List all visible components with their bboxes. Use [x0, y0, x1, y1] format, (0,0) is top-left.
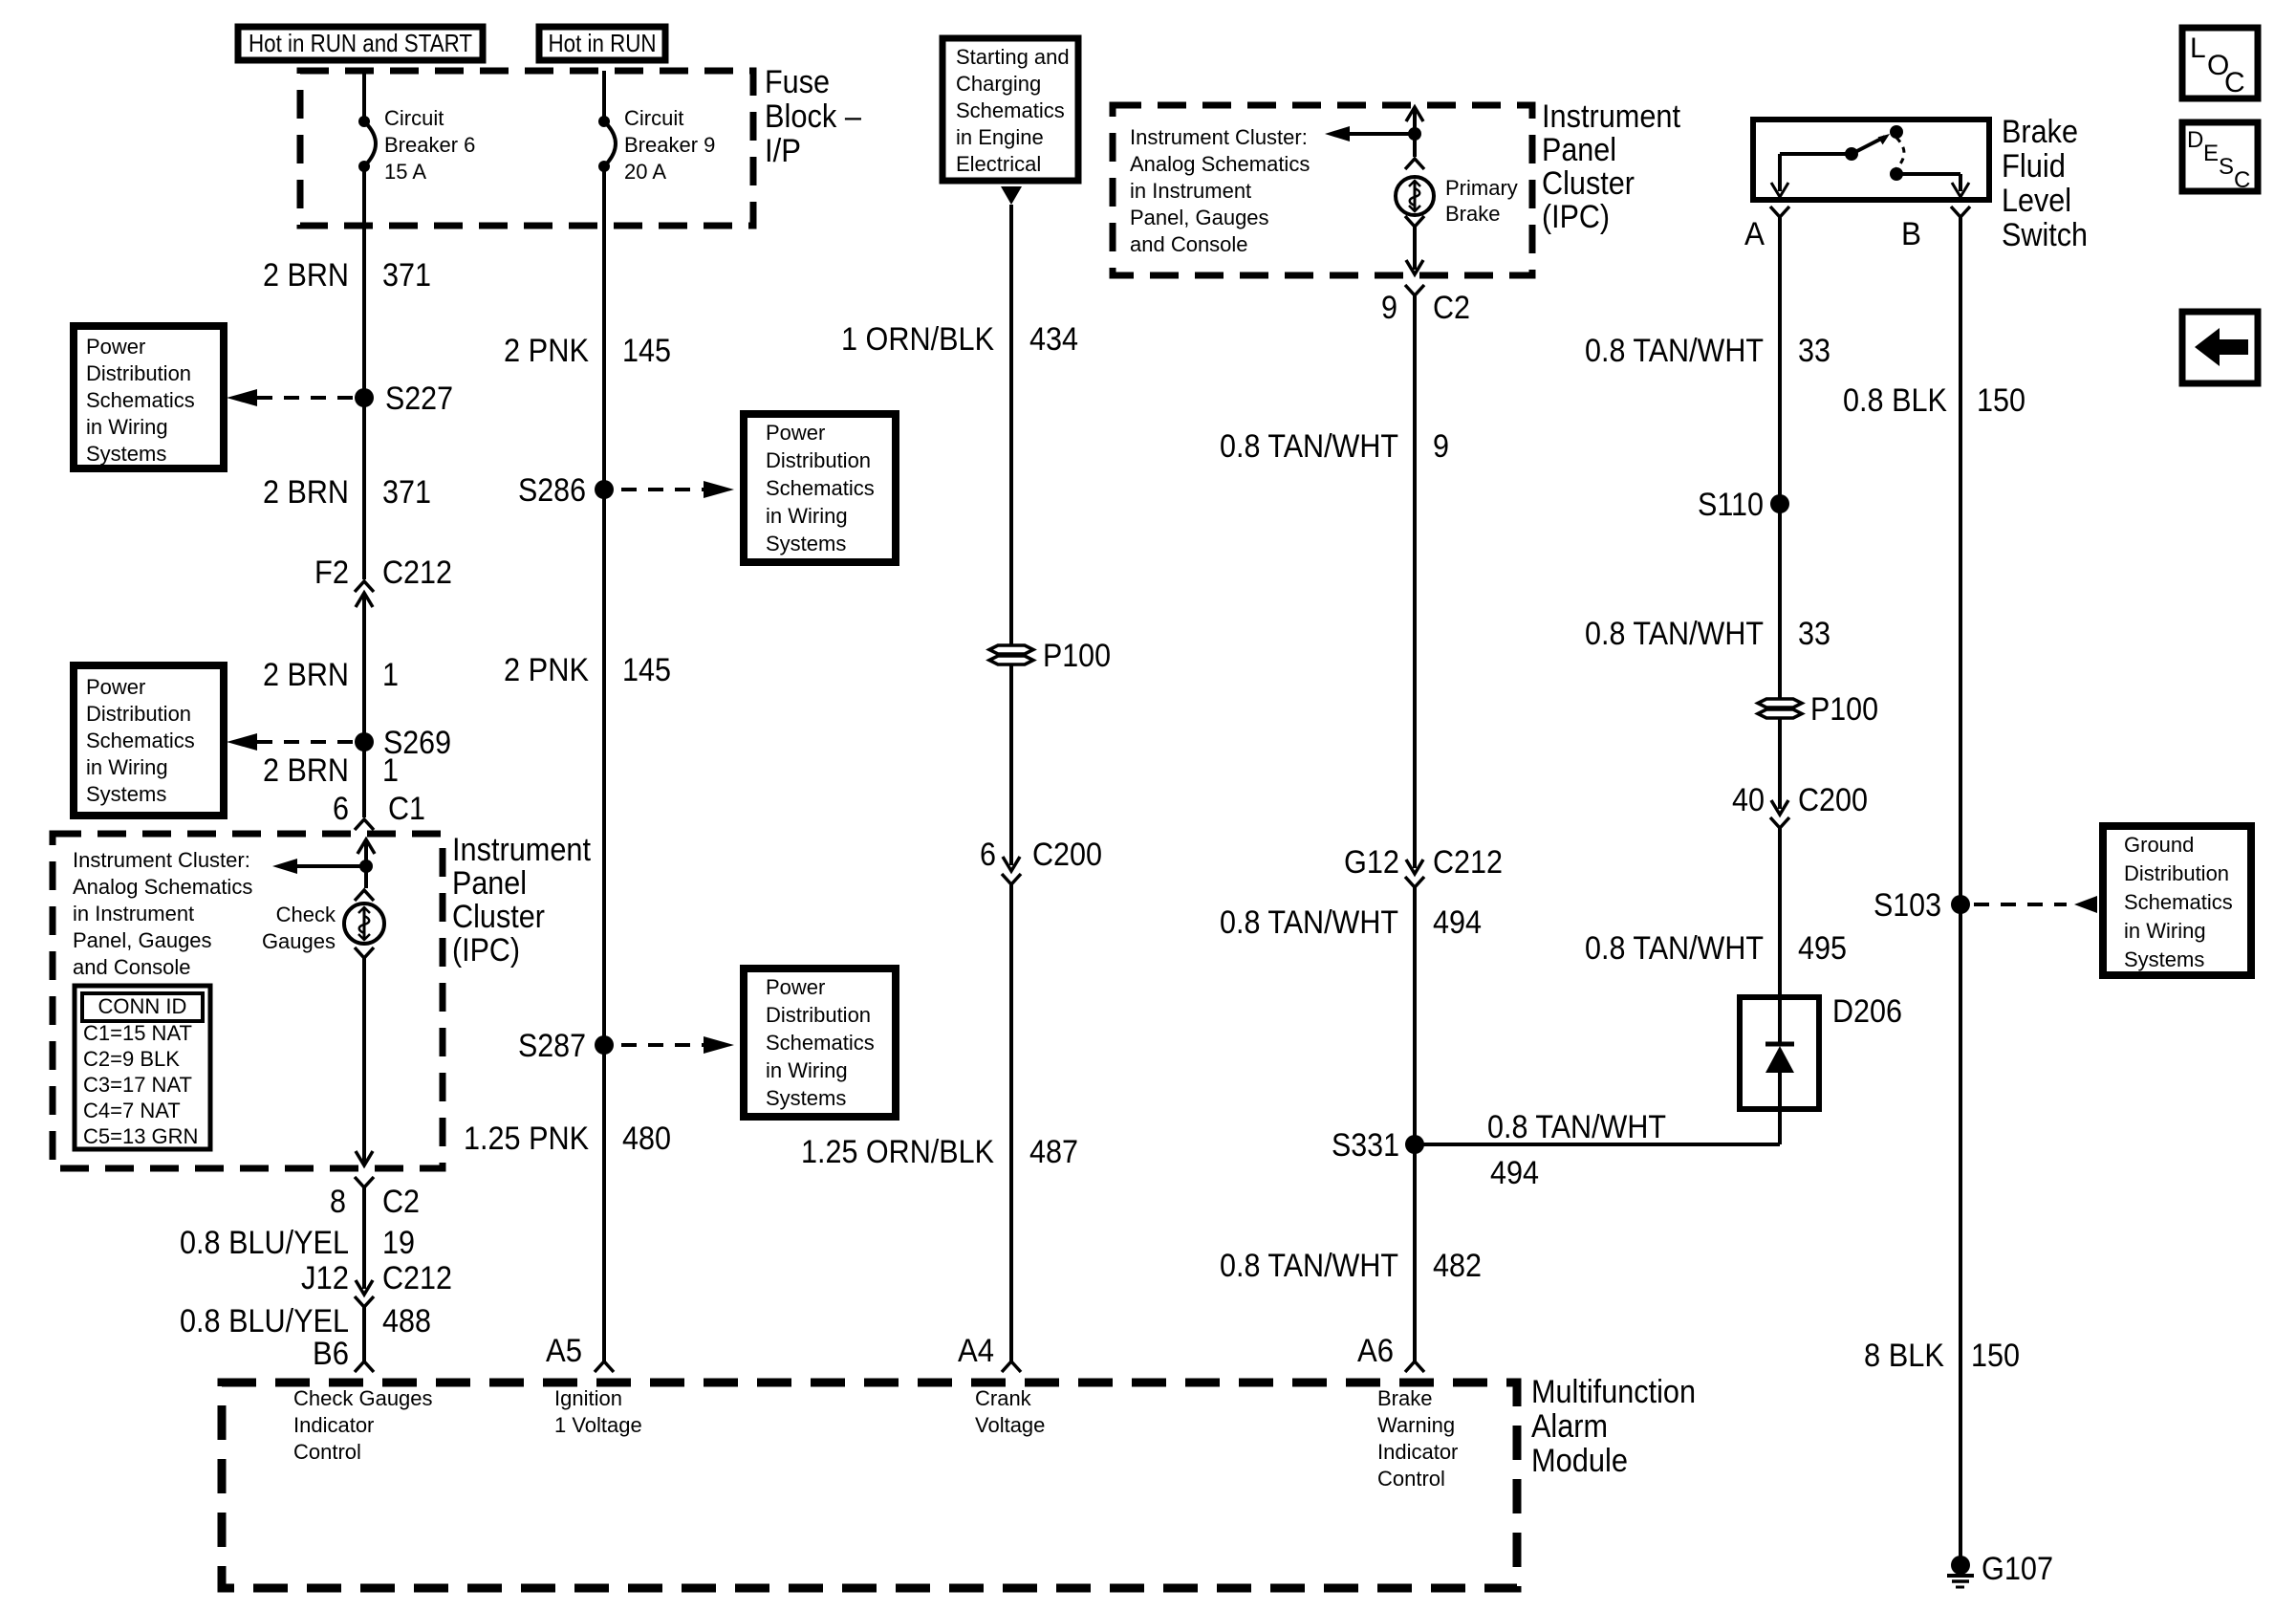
svg-text:494: 494	[1490, 1155, 1539, 1191]
svg-text:Schematics: Schematics	[86, 729, 195, 752]
svg-text:Cluster: Cluster	[452, 899, 545, 935]
svg-text:C2: C2	[1433, 290, 1470, 326]
svg-text:Distribution: Distribution	[766, 448, 871, 472]
svg-text:in Wiring: in Wiring	[766, 1058, 848, 1082]
svg-text:D206: D206	[1832, 993, 1902, 1030]
svg-text:Warning: Warning	[1377, 1413, 1455, 1437]
svg-text:Breaker 9: Breaker 9	[624, 133, 715, 157]
svg-text:6: 6	[980, 837, 996, 873]
svg-text:Panel: Panel	[1542, 132, 1616, 168]
svg-text:Control: Control	[1377, 1467, 1445, 1491]
svg-text:(IPC): (IPC)	[452, 932, 520, 969]
svg-text:in Wiring: in Wiring	[766, 504, 848, 528]
svg-text:150: 150	[1977, 382, 2025, 419]
svg-text:15 A: 15 A	[384, 160, 426, 184]
svg-text:in Wiring: in Wiring	[86, 415, 168, 439]
svg-text:Distribution: Distribution	[86, 702, 191, 726]
svg-text:B6: B6	[313, 1336, 349, 1372]
svg-text:1.25 ORN/BLK: 1.25 ORN/BLK	[801, 1134, 994, 1170]
svg-text:S110: S110	[1698, 487, 1764, 523]
svg-text:P100: P100	[1810, 691, 1878, 728]
svg-text:G107: G107	[1982, 1551, 2053, 1587]
svg-text:2 BRN: 2 BRN	[263, 257, 349, 294]
svg-text:0.8 BLU/YEL: 0.8 BLU/YEL	[180, 1303, 349, 1339]
svg-text:Power: Power	[86, 675, 145, 699]
svg-text:C200: C200	[1032, 837, 1102, 873]
svg-text:Brake: Brake	[1377, 1386, 1432, 1410]
svg-text:C: C	[2234, 167, 2250, 193]
svg-text:S331: S331	[1332, 1127, 1399, 1164]
svg-text:and Console: and Console	[1130, 232, 1248, 256]
svg-text:0.8 TAN/WHT: 0.8 TAN/WHT	[1220, 904, 1398, 941]
svg-text:S227: S227	[385, 381, 453, 417]
svg-text:2 PNK: 2 PNK	[504, 652, 589, 688]
svg-text:Distribution: Distribution	[2124, 861, 2229, 885]
svg-text:Check: Check	[276, 903, 336, 926]
svg-text:Primary: Primary	[1445, 176, 1518, 200]
svg-text:C212: C212	[382, 555, 452, 591]
svg-text:495: 495	[1798, 930, 1847, 967]
svg-text:C2=9 BLK: C2=9 BLK	[83, 1047, 180, 1071]
svg-text:8: 8	[330, 1184, 346, 1220]
svg-text:A4: A4	[958, 1333, 994, 1369]
svg-text:145: 145	[622, 652, 671, 688]
svg-text:C212: C212	[382, 1260, 452, 1296]
svg-text:C5=13 GRN: C5=13 GRN	[83, 1124, 198, 1148]
svg-text:Panel: Panel	[452, 865, 527, 902]
svg-text:0.8 TAN/WHT: 0.8 TAN/WHT	[1585, 616, 1764, 652]
svg-text:33: 33	[1798, 333, 1830, 369]
svg-text:434: 434	[1029, 321, 1078, 358]
svg-text:Circuit: Circuit	[624, 106, 683, 130]
svg-text:19: 19	[382, 1225, 415, 1261]
svg-text:0.8 TAN/WHT: 0.8 TAN/WHT	[1220, 428, 1398, 465]
svg-text:Starting and: Starting and	[956, 45, 1070, 69]
svg-text:Fluid: Fluid	[2002, 148, 2066, 185]
svg-text:Charging: Charging	[956, 72, 1041, 96]
svg-text:Instrument: Instrument	[452, 832, 591, 868]
svg-text:Level: Level	[2002, 183, 2071, 219]
svg-text:C: C	[2224, 67, 2245, 98]
svg-text:0.8 TAN/WHT: 0.8 TAN/WHT	[1585, 333, 1764, 369]
svg-text:Instrument: Instrument	[1542, 98, 1680, 135]
svg-text:Power: Power	[766, 975, 825, 999]
svg-text:in Engine: in Engine	[956, 125, 1044, 149]
svg-text:371: 371	[382, 474, 431, 511]
svg-text:33: 33	[1798, 616, 1830, 652]
svg-text:E: E	[2203, 141, 2219, 166]
svg-text:Systems: Systems	[766, 532, 846, 555]
svg-text:1.25 PNK: 1.25 PNK	[464, 1121, 589, 1157]
svg-text:Indicator: Indicator	[293, 1413, 374, 1437]
svg-text:in Instrument: in Instrument	[73, 902, 194, 925]
svg-text:1 Voltage: 1 Voltage	[554, 1413, 642, 1437]
svg-text:2 BRN: 2 BRN	[263, 657, 349, 693]
svg-text:Schematics: Schematics	[86, 388, 195, 412]
svg-text:494: 494	[1433, 904, 1482, 941]
svg-text:Indicator: Indicator	[1377, 1440, 1458, 1464]
svg-text:Hot in RUN and START: Hot in RUN and START	[249, 29, 472, 57]
svg-text:Panel, Gauges: Panel, Gauges	[73, 928, 212, 952]
svg-text:0.8 TAN/WHT: 0.8 TAN/WHT	[1487, 1109, 1666, 1145]
svg-text:Instrument Cluster:: Instrument Cluster:	[1130, 125, 1308, 149]
svg-text:in Wiring: in Wiring	[86, 755, 168, 779]
svg-text:in Instrument: in Instrument	[1130, 179, 1251, 203]
svg-text:482: 482	[1433, 1248, 1482, 1284]
svg-text:Instrument Cluster:: Instrument Cluster:	[73, 848, 250, 872]
svg-text:8 BLK: 8 BLK	[1864, 1338, 1944, 1374]
svg-text:I/P: I/P	[765, 133, 801, 169]
svg-text:Systems: Systems	[766, 1086, 846, 1110]
svg-text:1: 1	[382, 752, 399, 789]
svg-text:S: S	[2219, 154, 2234, 180]
svg-text:6: 6	[333, 791, 349, 827]
svg-text:B: B	[1901, 216, 1921, 252]
svg-text:D: D	[2187, 127, 2203, 153]
svg-text:Circuit: Circuit	[384, 106, 444, 130]
svg-text:Multifunction: Multifunction	[1531, 1374, 1696, 1410]
svg-text:Brake: Brake	[1445, 202, 1500, 226]
svg-text:Fuse: Fuse	[765, 64, 830, 100]
svg-text:Schematics: Schematics	[2124, 890, 2233, 914]
svg-text:Voltage: Voltage	[975, 1413, 1045, 1437]
svg-text:145: 145	[622, 333, 671, 369]
svg-text:A: A	[1744, 216, 1765, 252]
svg-text:Electrical: Electrical	[956, 152, 1041, 176]
svg-text:Ignition: Ignition	[554, 1386, 622, 1410]
svg-text:A6: A6	[1357, 1333, 1394, 1369]
svg-text:S287: S287	[518, 1028, 586, 1064]
svg-text:Block –: Block –	[765, 98, 861, 135]
svg-text:9: 9	[1381, 290, 1397, 326]
svg-text:Crank: Crank	[975, 1386, 1032, 1410]
svg-text:2 PNK: 2 PNK	[504, 333, 589, 369]
svg-text:C212: C212	[1433, 844, 1503, 881]
svg-text:Distribution: Distribution	[766, 1003, 871, 1027]
svg-text:Hot in RUN: Hot in RUN	[549, 29, 657, 57]
svg-text:Module: Module	[1531, 1443, 1628, 1479]
svg-text:Systems: Systems	[2124, 947, 2204, 971]
svg-text:Control: Control	[293, 1440, 361, 1464]
svg-text:0.8 BLK: 0.8 BLK	[1843, 382, 1947, 419]
svg-text:C1: C1	[388, 791, 425, 827]
svg-text:Breaker 6: Breaker 6	[384, 133, 475, 157]
svg-text:1 ORN/BLK: 1 ORN/BLK	[841, 321, 994, 358]
svg-text:S286: S286	[518, 472, 586, 509]
svg-text:C200: C200	[1798, 782, 1868, 818]
svg-text:0.8 BLU/YEL: 0.8 BLU/YEL	[180, 1225, 349, 1261]
svg-text:150: 150	[1971, 1338, 2020, 1374]
svg-text:Brake: Brake	[2002, 114, 2078, 150]
svg-text:F2: F2	[314, 555, 349, 591]
svg-text:0.8 TAN/WHT: 0.8 TAN/WHT	[1585, 930, 1764, 967]
svg-text:2 BRN: 2 BRN	[263, 752, 349, 789]
svg-text:C4=7 NAT: C4=7 NAT	[83, 1099, 181, 1122]
svg-text:2 BRN: 2 BRN	[263, 474, 349, 511]
svg-text:Systems: Systems	[86, 442, 166, 466]
svg-text:Schematics: Schematics	[956, 98, 1065, 122]
svg-text:Power: Power	[86, 335, 145, 359]
svg-text:480: 480	[622, 1121, 671, 1157]
svg-text:and Console: and Console	[73, 955, 191, 979]
svg-text:Analog Schematics: Analog Schematics	[1130, 152, 1310, 176]
svg-text:Check Gauges: Check Gauges	[293, 1386, 433, 1410]
svg-text:J12: J12	[301, 1260, 349, 1296]
svg-text:Power: Power	[766, 421, 825, 445]
svg-text:Gauges: Gauges	[262, 929, 336, 953]
svg-text:40: 40	[1732, 782, 1765, 818]
svg-text:Panel, Gauges: Panel, Gauges	[1130, 206, 1269, 229]
svg-text:20 A: 20 A	[624, 160, 666, 184]
svg-text:Distribution: Distribution	[86, 361, 191, 385]
svg-text:Alarm: Alarm	[1531, 1408, 1608, 1445]
svg-text:Ground: Ground	[2124, 833, 2194, 857]
svg-text:C1=15 NAT: C1=15 NAT	[83, 1021, 192, 1045]
svg-text:L: L	[2190, 33, 2206, 64]
svg-text:1: 1	[382, 657, 399, 693]
svg-text:CONN ID: CONN ID	[98, 994, 187, 1018]
svg-text:9: 9	[1433, 428, 1449, 465]
svg-text:Cluster: Cluster	[1542, 165, 1635, 202]
svg-text:S103: S103	[1874, 887, 1941, 924]
svg-text:C3=17 NAT: C3=17 NAT	[83, 1073, 192, 1097]
svg-text:(IPC): (IPC)	[1542, 199, 1610, 235]
svg-text:C2: C2	[382, 1184, 420, 1220]
svg-text:Switch: Switch	[2002, 217, 2088, 253]
svg-text:G12: G12	[1344, 844, 1399, 881]
svg-text:Systems: Systems	[86, 782, 166, 806]
svg-text:Analog Schematics: Analog Schematics	[73, 875, 252, 899]
svg-text:Schematics: Schematics	[766, 1031, 875, 1055]
svg-text:488: 488	[382, 1303, 431, 1339]
svg-text:371: 371	[382, 257, 431, 294]
svg-text:Schematics: Schematics	[766, 476, 875, 500]
svg-text:A5: A5	[546, 1333, 582, 1369]
svg-text:487: 487	[1029, 1134, 1078, 1170]
svg-text:in Wiring: in Wiring	[2124, 919, 2206, 943]
svg-text:P100: P100	[1043, 638, 1111, 674]
svg-text:0.8 TAN/WHT: 0.8 TAN/WHT	[1220, 1248, 1398, 1284]
